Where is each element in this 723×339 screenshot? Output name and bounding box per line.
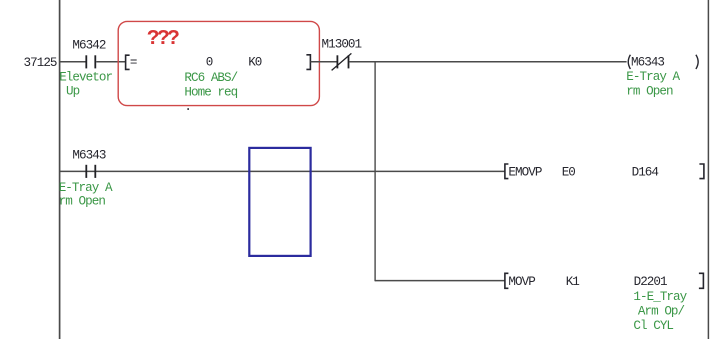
svg-text:M6342: M6342 bbox=[72, 38, 105, 52]
svg-text:Cl CYL: Cl CYL bbox=[633, 319, 673, 333]
svg-text:Home req: Home req bbox=[184, 86, 237, 100]
svg-text:E-Tray A: E-Tray A bbox=[59, 181, 113, 195]
svg-text:Up: Up bbox=[66, 85, 80, 99]
svg-text:E-Tray A: E-Tray A bbox=[626, 70, 680, 84]
svg-text:K0: K0 bbox=[248, 56, 262, 70]
svg-text:MOVP: MOVP bbox=[508, 275, 535, 289]
contact M6343 rung2 bbox=[86, 165, 95, 178]
svg-text:M6343: M6343 bbox=[631, 56, 664, 70]
svg-text:K1: K1 bbox=[566, 275, 580, 289]
coil right paren bbox=[696, 55, 698, 69]
svg-text:D2201: D2201 bbox=[634, 275, 667, 289]
wire contact M13001 to coil M6343 bbox=[349, 61, 626, 63]
svg-text:M13001: M13001 bbox=[322, 38, 362, 52]
EMOVP left bracket [ bbox=[505, 164, 509, 179]
MOVP right bracket ] bbox=[699, 273, 704, 288]
svg-text:rm Open: rm Open bbox=[626, 85, 673, 99]
comment 1-E_Tray Arm Op/ Cl CYL bbox=[633, 290, 687, 333]
svg-text:???: ??? bbox=[147, 28, 179, 51]
wire rung2 rail to EMOVP bracket bbox=[60, 170, 505, 172]
coil M6343 left paren bbox=[628, 55, 630, 69]
svg-text:D164: D164 bbox=[632, 166, 659, 180]
EMOVP right bracket ] bbox=[699, 164, 704, 179]
MOVP left bracket [ bbox=[505, 273, 509, 288]
svg-text:37125: 37125 bbox=[24, 56, 57, 70]
svg-text:rm Open: rm Open bbox=[59, 195, 106, 209]
wire rung3 branch to MOVP bracket bbox=[375, 280, 504, 282]
svg-text:0: 0 bbox=[206, 56, 213, 70]
svg-text:1-E_Tray: 1-E_Tray bbox=[633, 290, 687, 304]
cursor box (blue rectangle) bbox=[249, 148, 310, 256]
svg-text:M6343: M6343 bbox=[72, 148, 105, 162]
svg-text:Elevetor: Elevetor bbox=[59, 71, 112, 85]
left power rail bbox=[59, 0, 61, 339]
error box (red rounded rectangle) bbox=[118, 21, 319, 105]
compare block right bracket ] bbox=[306, 55, 310, 70]
comment E-Tray Arm Open (coil) bbox=[626, 70, 680, 99]
svg-text:RC6 ABS/: RC6 ABS/ bbox=[184, 71, 237, 85]
svg-text:=: = bbox=[130, 56, 137, 70]
svg-text:.: . bbox=[184, 100, 191, 114]
wire compare block to contact M13001 bbox=[310, 61, 336, 63]
svg-text:E0: E0 bbox=[562, 166, 576, 180]
comment E-Tray Arm Open (contact rung2) bbox=[59, 181, 113, 209]
wire contact M6342 to compare block bbox=[96, 61, 125, 63]
branch vertical wire bbox=[374, 62, 376, 281]
svg-text:Arm Op/: Arm Op/ bbox=[638, 305, 685, 319]
contact M6342 bbox=[86, 55, 95, 68]
wire rung1 rail to contact M6342 bbox=[60, 61, 86, 63]
comment RC6 ABS/ Home req . bbox=[184, 71, 237, 114]
contact M13001 normally closed bbox=[332, 53, 352, 70]
comment Elevetor Up bbox=[59, 71, 112, 99]
svg-text:EMOVP: EMOVP bbox=[508, 166, 541, 180]
right power rail bbox=[707, 0, 709, 339]
compare block left bracket [ bbox=[126, 55, 130, 69]
